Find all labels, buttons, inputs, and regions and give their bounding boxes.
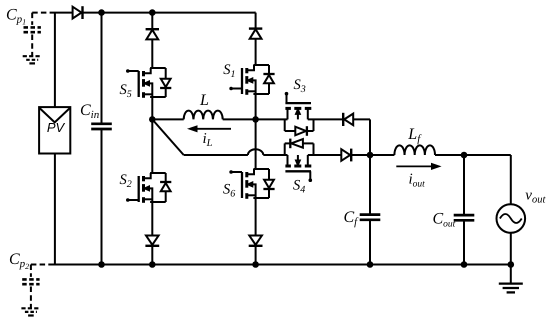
wire leg1 upper	[151, 13, 153, 30]
voltage source v_out	[497, 155, 526, 265]
diode D1	[73, 6, 83, 19]
wire S1 to node B to S6	[255, 94, 257, 169]
label C_f	[344, 209, 360, 228]
wire S2 to D3	[151, 202, 153, 236]
svg-text:PV: PV	[47, 120, 66, 135]
wire corner down to node C	[369, 119, 371, 155]
wire to crossover	[184, 154, 248, 156]
inductor L	[184, 111, 223, 120]
diode D7 (points right)	[341, 149, 351, 162]
mosfet S3	[285, 92, 314, 136]
label C_p2	[9, 251, 29, 271]
parasitic capacitor C_p2 (dashed)	[22, 265, 51, 308]
mosfet S2	[126, 173, 171, 203]
label C_in	[80, 102, 100, 121]
label S_5	[120, 82, 132, 100]
label S_1	[223, 62, 235, 80]
capacitor C_f	[360, 155, 381, 265]
label C_p1	[6, 7, 26, 27]
node bottom / C_in	[98, 261, 105, 268]
node B	[252, 116, 259, 123]
node bottom / leg2	[252, 261, 259, 268]
diode D6 (points left)	[343, 113, 353, 126]
node bottom / C_out	[461, 261, 468, 268]
label i_L	[203, 131, 213, 149]
node top rail / leg1	[149, 9, 156, 16]
wire D5 to bottom rail	[255, 246, 257, 265]
svg-text:L: L	[199, 92, 209, 109]
wire leg2 upper	[255, 13, 256, 29]
mosfet S4	[285, 139, 314, 182]
current arrow i_out	[396, 164, 440, 170]
label S_3	[294, 77, 306, 95]
wire D3 to bottom rail	[151, 246, 153, 265]
label C_out	[433, 210, 456, 229]
wire S4 to D7	[308, 154, 342, 156]
wire D4 to S1	[255, 39, 257, 65]
capacitor C_in	[91, 13, 112, 265]
label S_2	[120, 172, 132, 190]
capacitor C_out	[454, 155, 475, 265]
label v_out	[525, 187, 546, 205]
label S_6	[223, 182, 235, 200]
inductor L_f	[394, 145, 435, 155]
wire D2 to S5	[151, 39, 153, 68]
mosfet S5	[126, 68, 171, 98]
diode D5 (leg2 bottom)	[249, 236, 263, 246]
diode D4 (leg2 top)	[249, 29, 262, 39]
diode D2 (leg1 top)	[146, 29, 159, 39]
label L_f	[407, 126, 422, 145]
wire L to node B	[223, 118, 256, 120]
wire L_f to corner	[435, 154, 511, 156]
node L_f / C_out	[461, 152, 468, 159]
wire diagonal node A to S4 row	[152, 119, 183, 155]
wire hump to S4	[263, 154, 287, 156]
wire node C to L_f	[370, 154, 394, 156]
ground (solid) at v_out	[499, 265, 523, 293]
wire node A to L	[152, 118, 183, 120]
wire top rail	[51, 12, 256, 14]
mosfet S1	[229, 65, 274, 95]
wire D7 to node C	[351, 154, 370, 156]
mosfet S6	[229, 169, 274, 199]
node bottom / C_f	[367, 261, 374, 268]
current arrow i_L	[189, 126, 232, 132]
label i_out	[409, 172, 426, 190]
wire D6 to corner	[353, 118, 370, 120]
node bottom / v_out	[508, 261, 515, 268]
label L	[199, 92, 209, 109]
PV module	[39, 13, 70, 265]
label S_4	[293, 177, 305, 195]
wire crossover hump	[248, 149, 263, 155]
diode D3 (leg1 bottom)	[145, 236, 159, 246]
node bottom / leg1	[149, 261, 156, 268]
node C	[367, 152, 374, 159]
parasitic capacitor C_p1 (dashed)	[24, 13, 52, 56]
wire node B to S3	[256, 118, 288, 120]
wire bottom rail	[51, 264, 511, 266]
label PV	[47, 120, 66, 135]
node A	[149, 116, 156, 123]
ground (dashed) for C_p2	[21, 308, 40, 315]
wire S5 to node A to S2	[151, 97, 153, 173]
wire S6 to D5	[255, 198, 257, 236]
ground (dashed) for C_p1	[23, 56, 42, 63]
node top rail / C_in	[98, 9, 105, 16]
wire S3 to D6	[308, 118, 342, 120]
